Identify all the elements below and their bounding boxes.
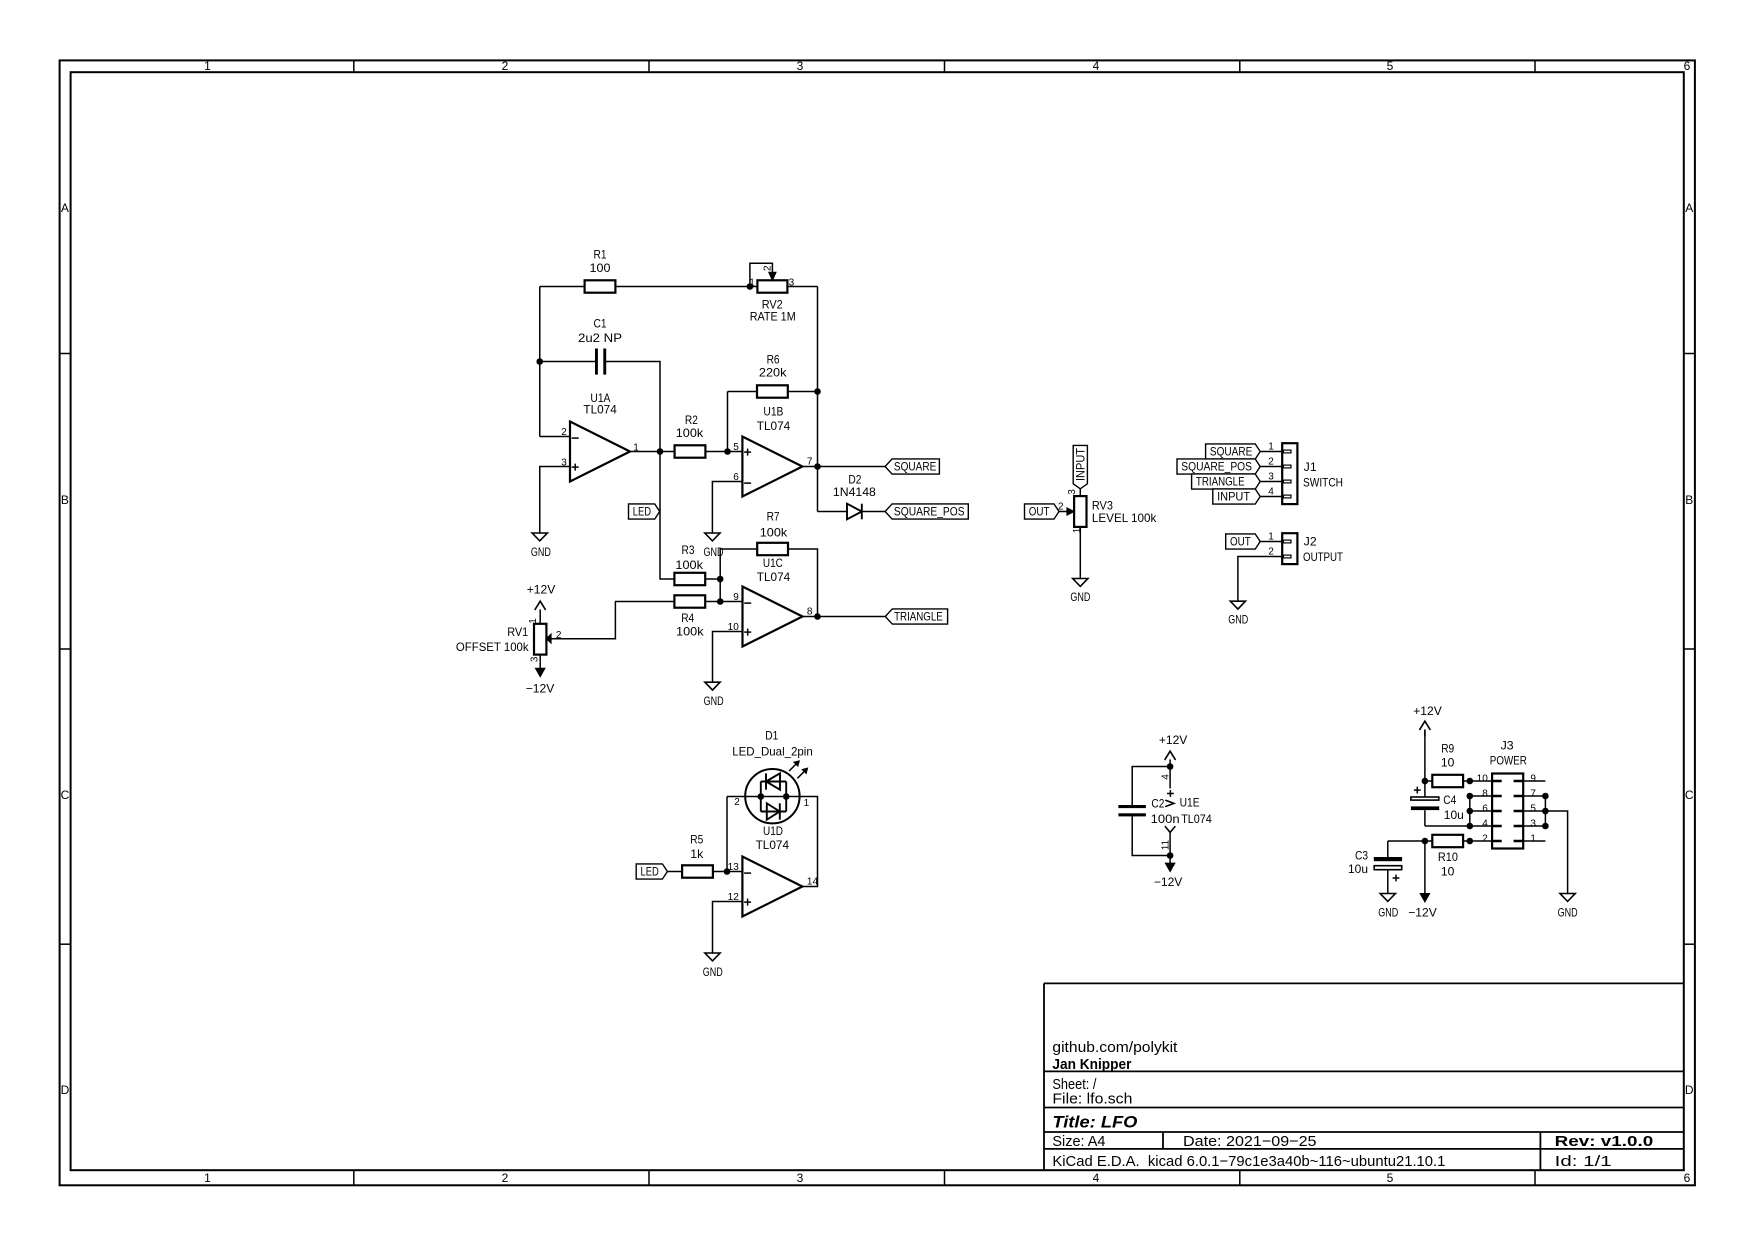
wire J3 pin6 bbox=[1470, 810, 1492, 812]
svg-text:SWITCH: SWITCH bbox=[1303, 476, 1343, 490]
svg-text:12: 12 bbox=[728, 892, 740, 903]
svg-text:3: 3 bbox=[1067, 489, 1078, 495]
svg-text:1: 1 bbox=[633, 443, 639, 454]
junction bbox=[1542, 808, 1549, 815]
wire J1 pin2 bbox=[1260, 466, 1282, 468]
svg-text:100k: 100k bbox=[676, 426, 705, 440]
wire RV3 pin3 bbox=[1079, 489, 1081, 497]
svg-text:RV3: RV3 bbox=[1092, 498, 1113, 512]
wire J3 pin8 bbox=[1470, 795, 1492, 797]
wire J3 pin7 bbox=[1523, 795, 1545, 797]
svg-text:8: 8 bbox=[1482, 789, 1488, 800]
ground GND (U1B pin6) bbox=[704, 533, 724, 559]
svg-text:1: 1 bbox=[1530, 834, 1536, 845]
svg-text:R6: R6 bbox=[767, 352, 780, 366]
svg-text:6: 6 bbox=[733, 472, 739, 483]
wire C1 right to U1A output column bbox=[606, 362, 660, 580]
wire RV3 pin1 to GND bbox=[1079, 527, 1081, 579]
junction bbox=[657, 448, 664, 455]
svg-text:9: 9 bbox=[733, 592, 739, 603]
svg-text:R1: R1 bbox=[594, 248, 607, 262]
svg-text:Id: 1/1: Id: 1/1 bbox=[1555, 1153, 1612, 1170]
junction bbox=[783, 793, 790, 800]
wire R10 junction to -12V bbox=[1424, 841, 1426, 894]
wire U1C pin10 to GND bbox=[713, 632, 743, 683]
op-amp U1D bbox=[728, 824, 819, 917]
ground GND (U1C pin10) bbox=[704, 682, 724, 708]
svg-text:C: C bbox=[61, 788, 70, 802]
svg-text:1: 1 bbox=[804, 798, 810, 809]
svg-text:3: 3 bbox=[1530, 819, 1536, 830]
junction bbox=[1542, 793, 1549, 800]
svg-text:INPUT: INPUT bbox=[1073, 447, 1087, 481]
wire R5 row / U1D pin13 bbox=[667, 871, 742, 873]
svg-text:7: 7 bbox=[807, 457, 813, 468]
svg-text:SQUARE: SQUARE bbox=[1210, 445, 1252, 459]
svg-text:9: 9 bbox=[1530, 774, 1536, 785]
wire J3 pin3 bbox=[1523, 825, 1545, 827]
svg-text:3: 3 bbox=[789, 277, 795, 288]
wire RV1 wiper to R4 bbox=[546, 602, 615, 639]
junction bbox=[1467, 808, 1474, 815]
svg-text:B: B bbox=[1685, 493, 1693, 507]
wire R6 left vertical bbox=[727, 392, 729, 452]
svg-text:6: 6 bbox=[1684, 1171, 1691, 1185]
wire J3 pin1 bbox=[1523, 840, 1545, 842]
junction bbox=[536, 358, 543, 365]
global label TRIANGLE bbox=[885, 609, 947, 624]
svg-text:GND: GND bbox=[1070, 590, 1090, 604]
power -12V (U1E) bbox=[1154, 856, 1183, 889]
svg-text:3: 3 bbox=[797, 59, 804, 73]
svg-text:SQUARE: SQUARE bbox=[894, 460, 936, 474]
junction bbox=[1467, 838, 1474, 845]
wire left feedback vertical bbox=[539, 287, 541, 437]
wire U1E pin11 bbox=[1169, 832, 1171, 855]
svg-text:R7: R7 bbox=[767, 509, 780, 523]
resistor R2 bbox=[675, 413, 706, 458]
connector J3 POWER bbox=[1477, 738, 1537, 848]
svg-text:1: 1 bbox=[204, 59, 211, 73]
svg-text:C3: C3 bbox=[1355, 849, 1368, 863]
svg-text:RV1: RV1 bbox=[507, 625, 528, 639]
svg-text:13: 13 bbox=[728, 862, 740, 873]
op-amp U1B bbox=[733, 405, 813, 497]
svg-text:2: 2 bbox=[763, 265, 774, 271]
wire U1D pin12 to GND bbox=[713, 902, 743, 954]
wire right feedback vertical bbox=[817, 287, 819, 512]
wire C4 top stem bbox=[1424, 781, 1426, 797]
global label OUT (J2) bbox=[1226, 534, 1261, 549]
svg-text:2: 2 bbox=[502, 1171, 509, 1185]
svg-text:KiCad E.D.A. kicad 6.0.1−79c1: KiCad E.D.A. kicad 6.0.1−79c1e3a40b~116~… bbox=[1052, 1153, 1445, 1170]
svg-text:TL074: TL074 bbox=[1181, 812, 1212, 826]
svg-text:1: 1 bbox=[749, 278, 755, 289]
svg-text:R4: R4 bbox=[681, 611, 694, 625]
wire U1D output loop bbox=[803, 797, 818, 887]
svg-text:−12V: −12V bbox=[1154, 875, 1183, 889]
svg-text:POWER: POWER bbox=[1490, 753, 1527, 767]
resistor R4 bbox=[674, 595, 705, 638]
global label INPUT (vertical) bbox=[1073, 445, 1087, 488]
svg-text:6: 6 bbox=[1482, 804, 1488, 815]
title block bbox=[1044, 983, 1684, 1170]
svg-text:4: 4 bbox=[1093, 59, 1100, 73]
resistor R10 bbox=[1432, 835, 1463, 879]
junction bbox=[1167, 852, 1174, 859]
resistor R5 bbox=[682, 833, 713, 878]
op-amp U1E power unit bbox=[1160, 774, 1212, 851]
svg-text:U1E: U1E bbox=[1180, 796, 1200, 810]
svg-text:100k: 100k bbox=[760, 525, 789, 539]
svg-text:TL074: TL074 bbox=[583, 402, 617, 416]
wire +12V stem at J3 bbox=[1424, 730, 1426, 781]
svg-text:R9: R9 bbox=[1441, 742, 1454, 756]
power +12V (U1E) bbox=[1159, 733, 1188, 766]
svg-text:U1C: U1C bbox=[763, 556, 783, 570]
wire C4 bottom stem bbox=[1424, 810, 1426, 826]
wire R2 row bbox=[660, 451, 743, 453]
svg-text:1k: 1k bbox=[690, 847, 704, 861]
junction bbox=[814, 463, 821, 470]
wire C1 left bbox=[540, 361, 595, 363]
svg-text:File: lfo.sch: File: lfo.sch bbox=[1052, 1091, 1132, 1108]
junction bbox=[1422, 838, 1429, 845]
svg-text:1: 1 bbox=[1268, 441, 1274, 452]
svg-text:TL074: TL074 bbox=[757, 419, 791, 433]
diode D2 1N4148 bbox=[833, 472, 876, 519]
wire U1A pin2 bbox=[540, 436, 570, 438]
wire R7 left vertical bbox=[719, 549, 721, 602]
wire R6 row bbox=[728, 391, 818, 393]
svg-text:J2: J2 bbox=[1304, 534, 1317, 548]
global label SQUARE_POS bbox=[885, 504, 968, 519]
svg-text:−12V: −12V bbox=[526, 682, 555, 696]
potentiometer RV3 bbox=[1058, 489, 1157, 533]
global label SQUARE (J1) bbox=[1206, 444, 1261, 459]
svg-text:3: 3 bbox=[530, 656, 541, 662]
wire C2 bottom loop bbox=[1132, 816, 1170, 855]
svg-text:2: 2 bbox=[1482, 834, 1488, 845]
svg-text:Rev: v1.0.0: Rev: v1.0.0 bbox=[1555, 1133, 1654, 1150]
svg-text:−12V: −12V bbox=[1408, 905, 1437, 919]
ground GND (J3 pin5) bbox=[1558, 894, 1578, 920]
op-amp U1A bbox=[561, 391, 639, 482]
svg-text:R2: R2 bbox=[685, 413, 698, 427]
connector J2 OUTPUT bbox=[1268, 531, 1343, 564]
svg-text:11: 11 bbox=[1161, 839, 1172, 850]
svg-text:10: 10 bbox=[728, 622, 740, 633]
resistor R7 bbox=[757, 509, 788, 555]
potentiometer RV1 bbox=[456, 616, 562, 662]
ground GND (U1A pin3) bbox=[531, 533, 551, 559]
svg-text:1: 1 bbox=[528, 618, 539, 624]
svg-text:TL074: TL074 bbox=[756, 838, 790, 852]
wire RV2 wiper loop bbox=[750, 263, 773, 286]
wire J3 pin4 row bbox=[1425, 825, 1492, 827]
svg-text:C2: C2 bbox=[1151, 797, 1164, 811]
wire U1E pin4 bbox=[1169, 767, 1171, 789]
op-amp U1C bbox=[728, 556, 813, 647]
wire U1A pin3 to GND bbox=[540, 467, 570, 534]
junction bbox=[814, 388, 821, 395]
capacitor C1 bbox=[578, 316, 622, 374]
svg-text:1N4148: 1N4148 bbox=[833, 485, 876, 499]
global label INPUT (J1) bbox=[1213, 489, 1260, 504]
wire J2 pin1 bbox=[1260, 541, 1282, 543]
wire R4 row / U1C pin9 bbox=[615, 601, 742, 603]
svg-text:LED: LED bbox=[633, 505, 651, 519]
global label TRIANGLE (J1) bbox=[1192, 474, 1261, 489]
svg-text:A: A bbox=[61, 201, 69, 215]
svg-text:4: 4 bbox=[1160, 774, 1171, 780]
svg-text:6: 6 bbox=[1684, 59, 1691, 73]
svg-text:U1B: U1B bbox=[763, 405, 783, 419]
svg-text:2: 2 bbox=[1268, 546, 1274, 557]
wire J3 pin10 row bbox=[1425, 780, 1492, 782]
svg-text:2u2 NP: 2u2 NP bbox=[578, 331, 622, 345]
junction bbox=[758, 793, 765, 800]
wire RV2 pin3 bbox=[750, 286, 818, 288]
svg-text:D1: D1 bbox=[765, 729, 778, 743]
svg-text:LED_Dual_2pin: LED_Dual_2pin bbox=[732, 745, 813, 759]
global label SQUARE bbox=[885, 459, 939, 474]
wire U1C output to TRIANGLE bbox=[803, 616, 885, 618]
potentiometer RV2 bbox=[749, 265, 795, 324]
global label LED (upper) bbox=[629, 504, 660, 519]
svg-text:GND: GND bbox=[1228, 612, 1248, 626]
svg-text:INPUT: INPUT bbox=[1217, 490, 1251, 504]
svg-text:100k: 100k bbox=[675, 558, 704, 572]
svg-text:TRIANGLE: TRIANGLE bbox=[1196, 475, 1245, 489]
svg-text:4: 4 bbox=[1268, 486, 1274, 497]
svg-text:D: D bbox=[61, 1083, 70, 1097]
junction bbox=[724, 868, 731, 875]
svg-text:OUTPUT: OUTPUT bbox=[1303, 550, 1344, 564]
svg-text:2: 2 bbox=[561, 427, 567, 438]
wire J3 pin9 bbox=[1523, 780, 1545, 782]
wire J1 pin3 bbox=[1260, 481, 1282, 483]
svg-text:A: A bbox=[1685, 201, 1693, 215]
svg-text:5: 5 bbox=[1387, 1171, 1394, 1185]
svg-text:OUT: OUT bbox=[1230, 535, 1251, 549]
junction bbox=[1467, 793, 1474, 800]
svg-text:5: 5 bbox=[733, 442, 739, 453]
svg-text:GND: GND bbox=[1558, 905, 1578, 919]
svg-text:OUT: OUT bbox=[1029, 505, 1050, 519]
svg-text:Size: A4: Size: A4 bbox=[1052, 1133, 1105, 1150]
svg-text:2: 2 bbox=[1268, 456, 1274, 467]
junction bbox=[1167, 763, 1174, 770]
power -12V (RV1) bbox=[526, 661, 555, 695]
capacitor C2 bbox=[1118, 797, 1179, 826]
svg-text:+12V: +12V bbox=[1159, 733, 1188, 747]
svg-text:SQUARE_POS: SQUARE_POS bbox=[1181, 460, 1252, 474]
wire C3 top stem bbox=[1387, 841, 1389, 857]
wire D1 row bbox=[727, 796, 818, 798]
junction bbox=[1422, 778, 1429, 785]
svg-text:5: 5 bbox=[1387, 59, 1394, 73]
ground GND (RV3) bbox=[1070, 579, 1090, 604]
wire C3 bottom stem to GND bbox=[1387, 870, 1389, 894]
LED D1 LED_Dual_2pin bbox=[732, 729, 813, 824]
power +12V (J3) bbox=[1413, 704, 1442, 737]
svg-text:100k: 100k bbox=[676, 625, 705, 639]
ground GND (C3) bbox=[1378, 894, 1398, 920]
svg-text:14: 14 bbox=[807, 877, 819, 888]
svg-text:C: C bbox=[1685, 788, 1694, 802]
junction bbox=[1467, 778, 1474, 785]
wire U1A output bbox=[630, 451, 660, 453]
wire J2 pin2 to GND bbox=[1238, 557, 1282, 602]
global label SQUARE_POS (J1) bbox=[1177, 459, 1260, 474]
svg-text:7: 7 bbox=[1530, 789, 1536, 800]
junction bbox=[747, 283, 754, 290]
svg-text:1: 1 bbox=[204, 1171, 211, 1185]
wire R3 row bbox=[660, 578, 720, 580]
svg-text:LED: LED bbox=[641, 865, 659, 879]
power +12V (RV1) bbox=[527, 582, 556, 616]
wire J3 pin5 bbox=[1523, 810, 1545, 812]
wire J3 right pins vertical bbox=[1544, 796, 1546, 826]
wire D2 row bbox=[818, 511, 886, 513]
power -12V (J3) bbox=[1408, 894, 1437, 920]
svg-text:10u: 10u bbox=[1444, 808, 1464, 822]
ground GND (J2) bbox=[1228, 601, 1248, 626]
svg-text:GND: GND bbox=[531, 545, 551, 559]
wire RV3 wiper bbox=[1059, 511, 1074, 513]
svg-text:100: 100 bbox=[590, 261, 611, 275]
resistor R3 bbox=[674, 543, 705, 585]
svg-text:10: 10 bbox=[1441, 865, 1455, 879]
junction bbox=[1542, 823, 1549, 830]
capacitor C4 (polarized) bbox=[1411, 787, 1464, 822]
svg-text:GND: GND bbox=[703, 965, 723, 979]
global label LED (lower) bbox=[636, 864, 667, 879]
svg-text:github.com/polykit: github.com/polykit bbox=[1052, 1039, 1178, 1056]
svg-text:3: 3 bbox=[797, 1171, 804, 1185]
svg-text:+12V: +12V bbox=[1413, 704, 1442, 718]
resistor R9 bbox=[1432, 742, 1463, 788]
svg-text:LEVEL 100k: LEVEL 100k bbox=[1092, 511, 1157, 525]
svg-text:10: 10 bbox=[1477, 774, 1489, 785]
wire J1 pin4 bbox=[1260, 496, 1282, 498]
svg-text:D: D bbox=[1685, 1083, 1694, 1097]
wire R1 row bbox=[540, 286, 750, 288]
svg-text:220k: 220k bbox=[759, 366, 788, 380]
svg-text:10u: 10u bbox=[1348, 862, 1368, 876]
svg-text:GND: GND bbox=[704, 694, 724, 708]
wire J3 left pins vertical bbox=[1469, 796, 1471, 826]
svg-text:4: 4 bbox=[1482, 819, 1488, 830]
svg-text:5: 5 bbox=[1530, 804, 1536, 815]
wire J1 pin1 bbox=[1260, 451, 1282, 453]
junction bbox=[814, 613, 821, 620]
svg-text:1: 1 bbox=[1072, 527, 1083, 533]
svg-text:TL074: TL074 bbox=[757, 570, 791, 584]
svg-text:SQUARE_POS: SQUARE_POS bbox=[894, 505, 965, 519]
svg-text:3: 3 bbox=[1268, 471, 1274, 482]
junction bbox=[717, 576, 724, 583]
svg-text:100n: 100n bbox=[1151, 812, 1180, 826]
svg-text:J1: J1 bbox=[1304, 460, 1317, 474]
svg-text:TRIANGLE: TRIANGLE bbox=[894, 610, 943, 624]
wire J3 pin5 to GND bbox=[1545, 811, 1567, 894]
resistor R1 bbox=[585, 248, 616, 293]
svg-text:GND: GND bbox=[1378, 905, 1398, 919]
svg-text:+12V: +12V bbox=[527, 582, 556, 596]
svg-text:3: 3 bbox=[561, 457, 567, 468]
svg-text:2: 2 bbox=[502, 59, 509, 73]
svg-text:Jan Knipper: Jan Knipper bbox=[1052, 1056, 1131, 1073]
resistor R6 bbox=[757, 352, 788, 397]
svg-text:1: 1 bbox=[1268, 531, 1274, 542]
wire U1B pin6 to GND bbox=[712, 482, 742, 534]
svg-text:2: 2 bbox=[734, 797, 740, 808]
junction bbox=[1467, 823, 1474, 830]
svg-text:2: 2 bbox=[556, 630, 562, 641]
svg-text:OFFSET 100k: OFFSET 100k bbox=[456, 640, 530, 654]
svg-text:GND: GND bbox=[704, 545, 724, 559]
junction bbox=[717, 598, 724, 605]
wire J3 pin2 row bbox=[1388, 840, 1492, 842]
svg-text:R10: R10 bbox=[1438, 850, 1458, 864]
svg-text:R5: R5 bbox=[690, 833, 703, 847]
svg-text:4: 4 bbox=[1093, 1171, 1100, 1185]
junction bbox=[724, 448, 731, 455]
capacitor C3 (polarized) bbox=[1348, 849, 1402, 882]
wire C2 top loop bbox=[1132, 767, 1170, 806]
ground GND (U1D pin12) bbox=[703, 953, 723, 979]
svg-text:R3: R3 bbox=[682, 543, 695, 557]
svg-text:C1: C1 bbox=[594, 316, 607, 330]
svg-text:B: B bbox=[61, 493, 69, 507]
svg-text:J3: J3 bbox=[1501, 738, 1514, 752]
svg-text:8: 8 bbox=[807, 607, 813, 618]
svg-text:Date: 2021−09−25: Date: 2021−09−25 bbox=[1183, 1133, 1317, 1150]
svg-text:U1D: U1D bbox=[763, 824, 783, 838]
connector J1 SWITCH bbox=[1268, 441, 1343, 504]
wire R7 row bbox=[720, 549, 817, 617]
wire U1B output to SQUARE bbox=[803, 466, 886, 468]
wire D1 pin2 vertical bbox=[726, 797, 728, 872]
global label OUT (RV3) bbox=[1025, 504, 1060, 519]
svg-text:RATE 1M: RATE 1M bbox=[750, 310, 796, 324]
svg-text:Title: LFO: Title: LFO bbox=[1052, 1113, 1137, 1132]
svg-text:C4: C4 bbox=[1443, 793, 1456, 807]
svg-text:10: 10 bbox=[1441, 756, 1455, 770]
